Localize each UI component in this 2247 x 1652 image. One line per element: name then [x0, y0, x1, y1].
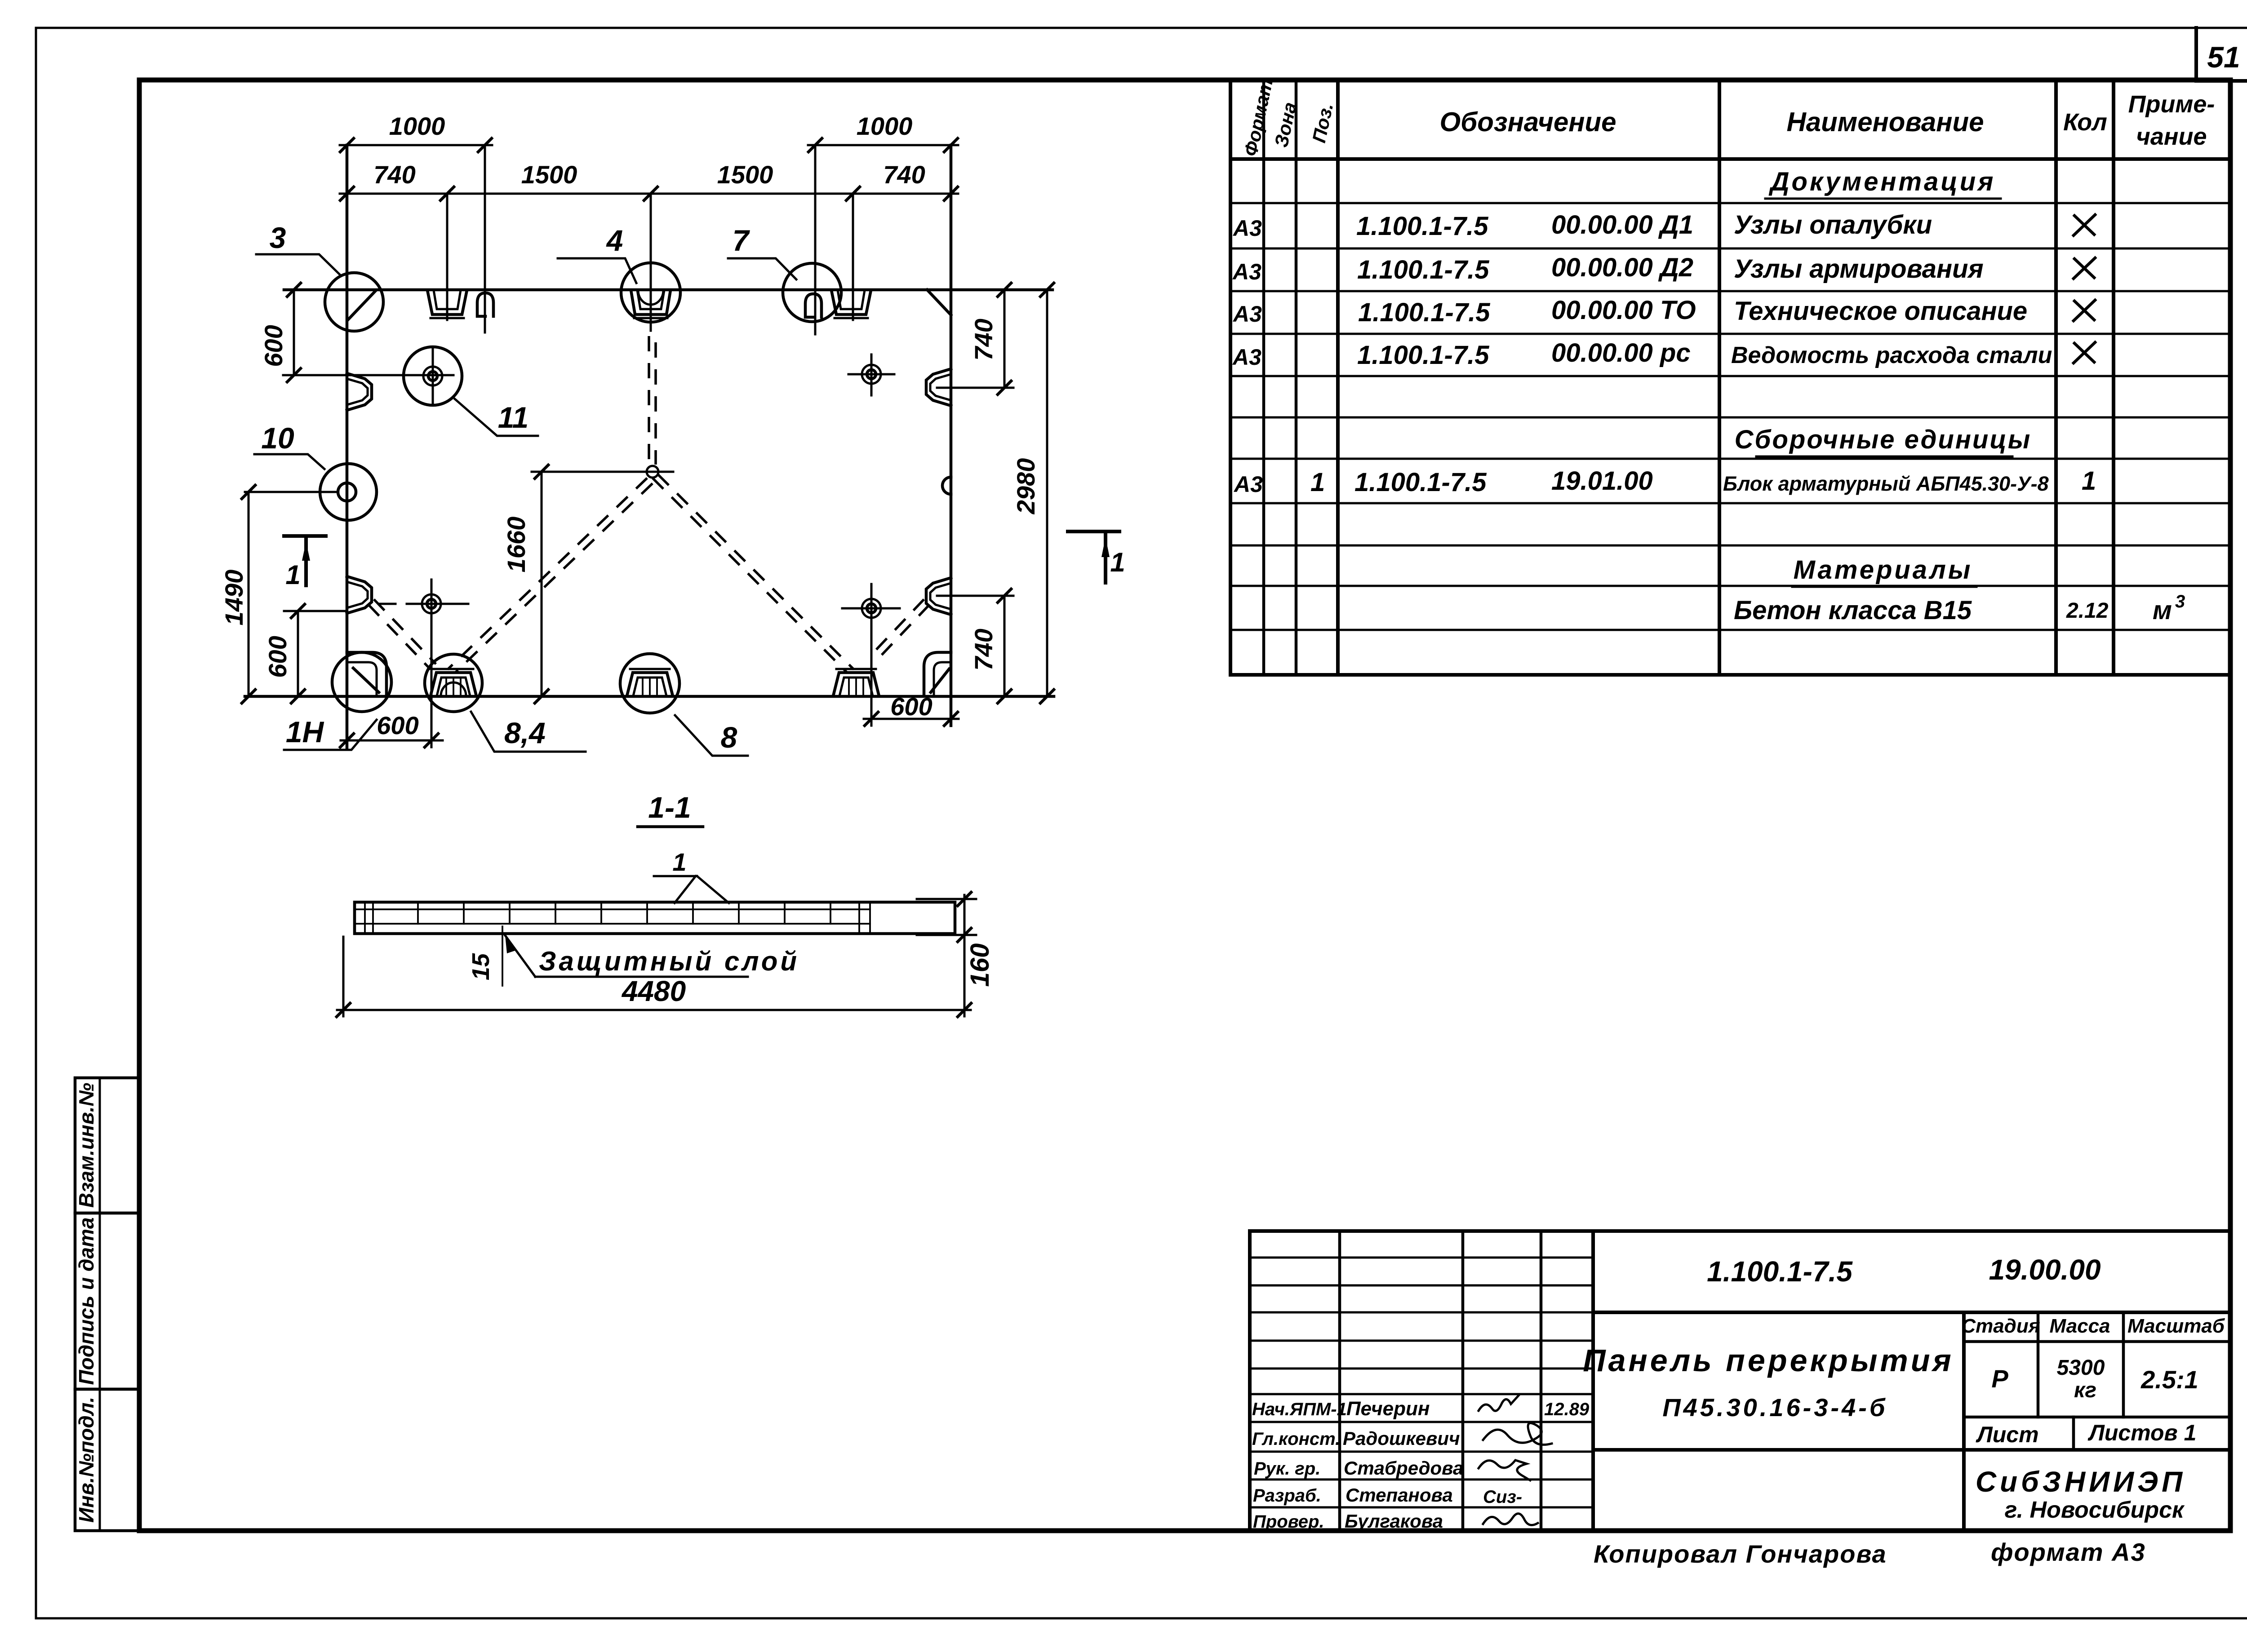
table bottom	[1230, 673, 2230, 677]
svg-text:2980: 2980	[1012, 458, 1040, 515]
svg-text:Булгакова: Булгакова	[1345, 1510, 1443, 1532]
table row lines	[1230, 202, 2230, 204]
target insert 11	[423, 367, 442, 385]
svg-text:Радошкевич: Радошкевич	[1343, 1428, 1460, 1449]
svg-text:740: 740	[969, 319, 998, 360]
svg-text:600: 600	[263, 636, 292, 678]
left 1490 dim	[245, 491, 337, 493]
svg-text:1.100.1-7.5: 1.100.1-7.5	[1354, 468, 1487, 497]
page number box	[2196, 28, 2247, 81]
strand dashed from left recess	[374, 599, 436, 664]
svg-text:формат А3: формат А3	[1991, 1538, 2146, 1566]
svg-text:1000: 1000	[857, 112, 913, 140]
svg-text:Гл.конст.: Гл.конст.	[1252, 1429, 1340, 1449]
stamp divider	[99, 1078, 101, 1531]
detail circles and labels	[254, 221, 1125, 756]
right 740 dim (top)	[937, 387, 1013, 389]
svg-text:Ведомость расхода стали: Ведомость расхода стали	[1731, 342, 2052, 368]
svg-text:Листов 1: Листов 1	[2088, 1420, 2197, 1445]
svg-text:19.01.00: 19.01.00	[1551, 466, 1653, 496]
svg-text:1.100.1-7.5: 1.100.1-7.5	[1707, 1255, 1853, 1288]
svg-text:3: 3	[270, 221, 286, 254]
title block	[1250, 1231, 2230, 1532]
extension line x1898	[852, 194, 854, 320]
stamp box Инв.№подл.	[75, 1389, 139, 1531]
designation row separator	[1593, 1311, 2230, 1314]
Стадия Масса Масштаб columns	[1962, 1312, 1966, 1531]
left side recess (bottom)	[347, 576, 372, 613]
top-right chamfer	[927, 290, 951, 315]
15 dim	[502, 926, 503, 986]
top anchor recess at 995	[427, 290, 467, 314]
strand node	[647, 466, 658, 478]
strand dashed vertical pair	[648, 336, 650, 465]
svg-text:А3: А3	[1232, 345, 1261, 370]
svg-text:3: 3	[2175, 592, 2185, 611]
dim row 1 right 1000	[808, 144, 958, 146]
mesh verticals	[365, 902, 870, 934]
detail circle 8	[620, 654, 679, 713]
svg-text:Защитный слой: Защитный слой	[539, 946, 799, 976]
right 740 dim (bottom)	[937, 595, 1013, 597]
panel symbols	[347, 290, 951, 696]
svg-text:Стадия: Стадия	[1961, 1315, 2040, 1337]
left side recess (top)	[347, 373, 372, 410]
svg-text:2.5:1: 2.5:1	[2140, 1365, 2198, 1394]
detail circle 11	[404, 347, 462, 405]
svg-text:Материалы: Материалы	[1794, 555, 1973, 585]
svg-text:1.100.1-7.5: 1.100.1-7.5	[1358, 298, 1490, 327]
extension line x995	[446, 194, 449, 320]
svg-text:А3: А3	[1232, 301, 1262, 327]
panel top edge (with extensions)	[284, 288, 1052, 292]
panel right edge (with extensions)	[950, 145, 953, 726]
4480 dim	[342, 937, 345, 1016]
svg-text:10: 10	[261, 421, 294, 455]
table contents	[1232, 167, 2185, 625]
svg-text:Обозначение: Обозначение	[1439, 107, 1616, 137]
svg-text:Провер.: Провер.	[1253, 1512, 1324, 1532]
svg-text:Инв.№подл.: Инв.№подл.	[75, 1397, 98, 1523]
svg-text:1: 1	[1110, 547, 1125, 577]
panel bottom edge (with extensions)	[245, 695, 1054, 698]
top plug at 1810 (detail 7)	[805, 294, 822, 317]
svg-text:2.12: 2.12	[2066, 599, 2109, 623]
title block outline	[1250, 1231, 2230, 1531]
detail circle 10	[320, 464, 377, 520]
svg-text:СибЗНИИЭП: СибЗНИИЭП	[1976, 1466, 2186, 1498]
svg-text:160: 160	[965, 943, 995, 987]
svg-text:4: 4	[606, 224, 623, 257]
svg-text:1000: 1000	[389, 112, 445, 140]
svg-text:12.89: 12.89	[1544, 1400, 1590, 1419]
signature squiggles	[1479, 1395, 1519, 1411]
svg-text:1Н: 1Н	[286, 715, 324, 748]
svg-text:чание: чание	[2136, 123, 2207, 150]
name box bottom	[1593, 1448, 2230, 1452]
bottom 600 dim (left)	[431, 629, 433, 747]
mesh horizontals	[355, 908, 870, 910]
svg-text:740: 740	[883, 160, 925, 189]
target insert bottom left	[422, 594, 441, 613]
svg-text:Лист: Лист	[1976, 1422, 2038, 1447]
svg-text:11: 11	[498, 401, 529, 434]
160 dim	[917, 898, 976, 900]
svg-text:740: 740	[373, 160, 415, 189]
left stamp boxes	[75, 1078, 139, 1531]
svg-text:А3: А3	[1232, 216, 1262, 241]
svg-text:51: 51	[2207, 40, 2240, 74]
top anchor recess at 1448 (detail 4)	[631, 290, 671, 314]
svg-text:м: м	[2153, 596, 2172, 625]
bottom anchor recess at 1905	[833, 673, 879, 696]
table verticals	[1229, 80, 1232, 675]
right side recess (top)	[926, 369, 951, 406]
extension line x1814	[814, 145, 817, 334]
svg-text:1490: 1490	[220, 570, 248, 626]
svg-text:4480: 4480	[621, 975, 686, 1007]
svg-text:1.100.1-7.5: 1.100.1-7.5	[1357, 341, 1489, 370]
svg-text:00.00.00 Д1: 00.00.00 Д1	[1551, 210, 1693, 239]
svg-text:1660: 1660	[502, 517, 530, 573]
detail circle 1Н	[332, 652, 391, 712]
title block row lines left part	[1250, 1257, 1593, 1259]
svg-text:Бетон класса В15: Бетон класса В15	[1734, 596, 1972, 625]
strand dashed right branch	[653, 478, 848, 673]
bottom anchor recess at 1009 (detail 8,4)	[431, 673, 476, 696]
svg-text:Сборочные единицы: Сборочные единицы	[1735, 425, 2032, 454]
svg-text:Масштаб: Масштаб	[2127, 1315, 2225, 1337]
right 2980 dim	[1046, 290, 1048, 696]
svg-text:Наименование: Наименование	[1786, 107, 1984, 137]
svg-text:Нач.ЯПМ-1: Нач.ЯПМ-1	[1252, 1400, 1347, 1419]
section mark left	[284, 534, 326, 538]
svg-text:740: 740	[969, 629, 998, 670]
svg-text:1-1: 1-1	[648, 791, 691, 824]
svg-text:Документация: Документация	[1768, 167, 1996, 196]
svg-text:Рук. гр.: Рук. гр.	[1254, 1459, 1320, 1479]
svg-text:Копировал Гончарова: Копировал Гончарова	[1594, 1540, 1887, 1568]
dim row 2 line	[340, 193, 958, 195]
stamp box Взам.инв.№	[75, 1078, 139, 1213]
extension line x1079	[484, 145, 486, 332]
right side recess (bottom)	[926, 578, 951, 615]
dim row 1 left 1000	[340, 144, 492, 146]
svg-text:8: 8	[721, 721, 737, 754]
specification table	[1230, 77, 2230, 675]
detail circle 7	[783, 263, 841, 322]
bottom-left corner support (detail 1Н)	[347, 652, 386, 695]
panel left edge (with extensions)	[346, 145, 349, 749]
1660 dim	[532, 471, 673, 473]
svg-text:15: 15	[467, 953, 494, 980]
svg-text:600: 600	[890, 692, 932, 721]
svg-text:600: 600	[259, 325, 288, 367]
svg-text:Подпись и дата: Подпись и дата	[75, 1218, 98, 1385]
svg-text:кг: кг	[2074, 1378, 2096, 1402]
extension line x1448	[650, 194, 652, 331]
title block verticals left part	[1338, 1231, 1341, 1531]
svg-text:А3: А3	[1233, 472, 1263, 497]
svg-text:5300: 5300	[2057, 1356, 2105, 1380]
svg-text:8,4: 8,4	[504, 716, 546, 749]
top plug at 1079	[477, 293, 493, 316]
corner diagonal detail 3	[348, 291, 376, 320]
svg-text:Блок арматурный АБП45.30-У-8: Блок арматурный АБП45.30-У-8	[1723, 472, 2049, 495]
svg-text:7: 7	[733, 224, 750, 257]
svg-text:1.100.1-7.5: 1.100.1-7.5	[1356, 212, 1488, 241]
svg-text:Р: Р	[1991, 1364, 2008, 1393]
svg-text:Панель перекрытия: Панель перекрытия	[1583, 1343, 1954, 1378]
target insert bottom right	[862, 599, 881, 618]
svg-text:Техническое описание: Техническое описание	[1734, 297, 2027, 326]
svg-text:Узлы опалубки: Узлы опалубки	[1734, 210, 1932, 239]
svg-text:г. Новосибирск: г. Новосибирск	[2005, 1497, 2185, 1523]
right edge semicircle notch	[942, 477, 951, 494]
bottom anchor recess at 1446 (detail 8)	[627, 673, 673, 696]
beam outline	[355, 902, 955, 934]
detail circle 4	[621, 263, 680, 322]
svg-text:1500: 1500	[717, 160, 773, 189]
svg-text:А3: А3	[1232, 259, 1261, 284]
role labels	[1252, 1398, 1590, 1532]
svg-text:1: 1	[672, 848, 686, 876]
svg-text:Сиз-: Сиз-	[1483, 1487, 1522, 1507]
detail circle 8,4	[425, 654, 482, 712]
svg-text:Масса: Масса	[2049, 1315, 2110, 1337]
top anchor recess at 1894	[831, 290, 871, 314]
bottom-right corner support	[924, 652, 951, 695]
svg-text:Печерин: Печерин	[1346, 1398, 1430, 1420]
svg-text:П45.30.16-3-4-б: П45.30.16-3-4-б	[1662, 1393, 1887, 1422]
svg-text:1500: 1500	[521, 160, 577, 189]
strand dashed left branch	[448, 478, 647, 669]
svg-text:Кол: Кол	[2063, 109, 2107, 136]
bottom 600 dim (right)	[870, 633, 873, 726]
svg-text:Стабредова: Стабредова	[1344, 1457, 1463, 1479]
svg-text:1: 1	[1310, 468, 1325, 497]
svg-text:00.00.00 ТО: 00.00.00 ТО	[1551, 296, 1696, 325]
svg-text:19.00.00: 19.00.00	[1989, 1253, 2100, 1286]
svg-text:Узлы армирования: Узлы армирования	[1734, 254, 1984, 283]
svg-text:00.00.00 рс: 00.00.00 рс	[1551, 338, 1691, 368]
table header bottom	[1230, 157, 2230, 161]
left 600 dim (top)	[283, 374, 453, 376]
strand dashed from right recess	[874, 599, 924, 652]
section mark right	[1068, 530, 1119, 533]
svg-text:Разраб.: Разраб.	[1253, 1486, 1321, 1506]
stamp box Подпись и дата	[75, 1213, 139, 1389]
svg-text:1: 1	[285, 560, 300, 590]
svg-text:Приме-: Приме-	[2128, 91, 2215, 118]
svg-text:1: 1	[2082, 466, 2096, 496]
left 600 dim (bottom)	[284, 610, 347, 612]
svg-text:00.00.00 Д2: 00.00.00 Д2	[1551, 253, 1693, 282]
detail circle 3	[325, 273, 383, 331]
svg-text:600: 600	[377, 711, 418, 740]
target insert top right	[862, 365, 881, 384]
svg-text:Степанова: Степанова	[1346, 1484, 1453, 1506]
svg-text:Взам.инв.№: Взам.инв.№	[75, 1083, 98, 1208]
svg-text:1.100.1-7.5: 1.100.1-7.5	[1357, 255, 1489, 284]
